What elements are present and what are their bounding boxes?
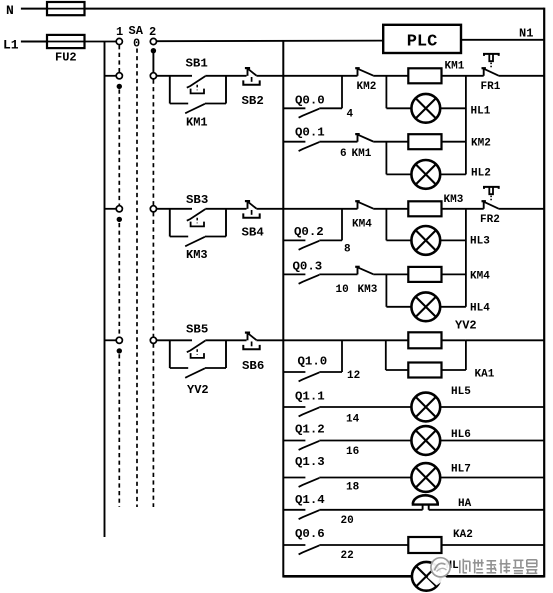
wire HL4 to return xyxy=(440,306,466,308)
wire HL5 to N1 rail xyxy=(440,406,544,408)
wire Q0.6 to KA2 coil xyxy=(319,544,408,546)
SA line 1 dashes b xyxy=(118,90,120,206)
SA blade closed segment line 2 xyxy=(152,51,154,73)
wire rail to Q1.3 contact xyxy=(283,477,305,479)
svg-text:KM1: KM1 xyxy=(186,116,208,130)
svg-text:HL3: HL3 xyxy=(470,236,490,248)
wire to HL1 xyxy=(386,107,411,109)
svg-text:10: 10 xyxy=(336,284,349,296)
wire rail to Q0.1 contact xyxy=(283,141,305,143)
svg-text:KM3: KM3 xyxy=(186,248,208,262)
wire L1 to fuse FU2 xyxy=(21,41,47,43)
SA contact 2 top xyxy=(150,38,156,44)
svg-text:SB6: SB6 xyxy=(242,359,264,373)
svg-text:FR1: FR1 xyxy=(481,81,501,93)
wire SA-2 to PLC xyxy=(157,40,384,43)
coil KM4 xyxy=(408,267,441,282)
wire Q0.3 to node 10 xyxy=(319,273,357,275)
coil KM3 xyxy=(408,201,441,216)
lamp HL2 xyxy=(411,160,440,189)
wire to HL3 xyxy=(386,239,411,241)
wire SA-2 to SB5 xyxy=(157,339,193,341)
svg-text:8: 8 xyxy=(344,244,351,256)
contact Q1.2 xyxy=(299,441,320,450)
lamp HL6 xyxy=(411,426,440,455)
svg-text:N: N xyxy=(6,3,14,18)
svg-text:Q0.3: Q0.3 xyxy=(293,260,323,274)
svg-text:KM1: KM1 xyxy=(445,61,465,73)
contact Q0.1 xyxy=(299,142,320,151)
wire Q0.0 to node 4 xyxy=(319,107,342,109)
contact Q0.2 xyxy=(299,241,320,250)
svg-text:4: 4 xyxy=(347,109,354,121)
wire SB4 past rail to KM4 contact xyxy=(256,208,357,210)
SA blade dot top xyxy=(151,48,156,53)
svg-text:Q0.1: Q0.1 xyxy=(295,126,325,140)
PLC U1 xyxy=(383,25,461,53)
contact Q0.3 xyxy=(299,275,320,284)
lamp HL7 xyxy=(411,463,440,492)
lamp HL5 xyxy=(411,393,440,422)
SA line 2 dashes b xyxy=(152,212,154,337)
svg-text:Q1.0: Q1.0 xyxy=(298,355,328,369)
wire N to fuse FU1 xyxy=(21,8,47,10)
contact Q1.1 xyxy=(299,407,320,416)
wire Q1.0 to node 12 xyxy=(319,371,342,373)
coil KA1 xyxy=(408,363,441,378)
pushbutton SB3 xyxy=(187,209,206,226)
wire HL1 to return xyxy=(440,107,466,109)
contact Q1.4 xyxy=(299,510,320,519)
svg-text:FU2: FU2 xyxy=(55,51,77,65)
return vertical group 2 xyxy=(465,209,467,307)
wire rail to Q0.2 contact xyxy=(283,239,305,241)
wire SB3 to SB4 xyxy=(205,208,246,210)
svg-text:2: 2 xyxy=(149,25,156,39)
wire KM4 contact to KM3 coil xyxy=(373,208,408,210)
SA line 0 dashes xyxy=(136,49,138,508)
wire HL3 to return xyxy=(440,239,466,241)
SA line 1 dashes a xyxy=(118,45,120,72)
svg-text:KM3: KM3 xyxy=(358,284,378,296)
SA line 2 dashes c xyxy=(152,344,154,507)
contact Q0.6 xyxy=(299,545,320,554)
parallel block left vertical xyxy=(385,340,387,370)
contact KM3 (hold) xyxy=(185,237,205,247)
wire N bus to N1 rail xyxy=(85,8,545,10)
riser KM2 row to HL2 xyxy=(385,142,387,175)
wire FR1 to N1 rail xyxy=(498,75,544,77)
wire rail to Q1.0 contact xyxy=(283,371,305,373)
svg-text:YV2: YV2 xyxy=(455,319,477,333)
wire rail to Q1.2 contact xyxy=(283,440,305,442)
wire FR2 to N1 rail xyxy=(498,208,544,210)
wire PLC to N1 rail xyxy=(461,39,544,41)
pushbutton SB1 xyxy=(187,76,206,93)
lamp HL8 xyxy=(412,562,441,591)
wire Q0.2 to node 8 xyxy=(319,239,342,241)
svg-text:Q0.2: Q0.2 xyxy=(294,225,324,239)
wire to HL2 xyxy=(386,173,411,175)
svg-text:PLC: PLC xyxy=(407,32,438,51)
wire SB6 past rail to YV2 coil xyxy=(256,339,408,341)
wire KM3 contact to KM4 coil xyxy=(373,273,408,275)
pushbutton SB4 xyxy=(243,201,259,218)
svg-text:SB4: SB4 xyxy=(242,226,265,240)
wire Q1.4 to bell HA xyxy=(319,509,422,511)
thermal overload FR2 xyxy=(482,187,499,209)
pushbutton SB2 xyxy=(243,68,259,85)
svg-text:KM3: KM3 xyxy=(444,194,464,206)
wire Q1.2 to lamp HL6 xyxy=(319,440,411,442)
riser node 8 xyxy=(341,209,343,241)
riser node 4 xyxy=(341,76,343,109)
coil KA2 xyxy=(408,537,441,553)
wire HL2 to return xyxy=(440,173,466,175)
svg-text:KA2: KA2 xyxy=(453,529,473,541)
coil KM2 xyxy=(408,134,441,149)
svg-text:SB3: SB3 xyxy=(186,193,208,207)
lamp HL4 xyxy=(411,292,440,321)
contact YV2 (hold) xyxy=(185,368,205,378)
SA contact 2 row 3 xyxy=(150,337,156,343)
svg-text:16: 16 xyxy=(346,446,359,458)
svg-text:YV2: YV2 xyxy=(187,383,209,397)
wire rail to Q0.3 contact xyxy=(283,273,305,275)
svg-text:HL7: HL7 xyxy=(451,464,471,476)
wire HA to N1 rail xyxy=(429,509,545,511)
coil KM1 xyxy=(408,68,441,83)
parallel block right vertical xyxy=(465,340,467,370)
wire KM1 coil to FR1 xyxy=(442,75,484,77)
wire feeder stub row 2 xyxy=(105,208,117,210)
wire feeder stub row 1 xyxy=(105,75,117,77)
branch box SB1/KM1 xyxy=(169,76,171,104)
lamp HL1 xyxy=(411,94,440,123)
wire KM1 contact to KM2 coil xyxy=(373,141,408,143)
contact KM1 (hold) xyxy=(185,104,205,114)
wire SB1 to SB2 xyxy=(205,75,246,77)
riser KM3 row to HL3 xyxy=(385,209,387,241)
left feeder vertical xyxy=(104,42,106,538)
svg-text:L1: L1 xyxy=(3,38,19,53)
svg-text:Q1.2: Q1.2 xyxy=(295,423,325,437)
svg-text:18: 18 xyxy=(346,482,360,494)
riser KM1 row to HL1 xyxy=(385,76,387,109)
SA contact 1 top xyxy=(116,38,122,44)
wire Q1.1 to lamp HL5 xyxy=(319,406,411,408)
SA line 1 dashes d xyxy=(118,354,120,507)
coil YV2 xyxy=(408,332,441,348)
svg-text:HL1: HL1 xyxy=(471,106,491,118)
svg-text:HL6: HL6 xyxy=(451,429,471,441)
wire rail to Q1.4 contact xyxy=(283,509,305,511)
svg-text:HA: HA xyxy=(458,498,472,510)
wire Q0.1 to node 6 xyxy=(319,141,357,143)
svg-text:HL5: HL5 xyxy=(451,386,471,398)
wire HL6 to N1 rail xyxy=(440,440,544,442)
svg-text:SB5: SB5 xyxy=(186,323,208,337)
contact KM3 NC interlock xyxy=(355,267,373,275)
riser node 12 xyxy=(341,340,343,372)
return vertical group 1 xyxy=(465,76,467,175)
svg-text:SB2: SB2 xyxy=(242,94,264,108)
watermark logo xyxy=(428,558,451,586)
svg-text:6: 6 xyxy=(340,148,347,160)
wire SB2 past rail to KM2 contact xyxy=(256,75,357,77)
wire to KA1 coil xyxy=(386,369,409,371)
svg-text:20: 20 xyxy=(341,515,354,527)
SA contact 1 row 1 xyxy=(116,73,122,79)
wire feeder stub row 3 xyxy=(105,339,117,341)
wire group3 to N1 rail xyxy=(466,339,544,341)
wire KA1 coil to block right xyxy=(442,369,466,371)
left rail (SA-2 bus) xyxy=(282,41,284,578)
wire SB5 to SB6 xyxy=(205,339,246,341)
SA line 1 dashes c xyxy=(118,223,120,337)
wire KM2 coil to return xyxy=(442,141,466,143)
svg-text:14: 14 xyxy=(346,414,360,426)
contact KM4 NC interlock xyxy=(355,201,373,209)
svg-text:KM4: KM4 xyxy=(352,219,372,231)
SA blade dot row 1 xyxy=(117,84,122,89)
pushbutton SB5 xyxy=(187,341,206,358)
svg-text:KM2: KM2 xyxy=(357,81,377,93)
svg-text:HL2: HL2 xyxy=(471,168,491,180)
contact KM2 NC interlock xyxy=(355,68,373,76)
right rail N1 xyxy=(543,8,545,578)
wire YV2 coil to return xyxy=(442,339,466,341)
svg-text:KA1: KA1 xyxy=(475,369,495,381)
wire HL7 to N1 rail xyxy=(440,477,544,479)
SA contact 1 row 3 xyxy=(116,337,122,343)
wire SA-2 to SB3 xyxy=(157,208,193,210)
svg-text:12: 12 xyxy=(347,370,360,382)
svg-text:Q0.0: Q0.0 xyxy=(295,94,325,108)
svg-text:0: 0 xyxy=(133,37,140,51)
wire HL8 to N1 rail xyxy=(441,575,545,578)
lamp HL3 xyxy=(411,226,440,255)
svg-text:Q1.4: Q1.4 xyxy=(295,493,325,507)
svg-text:Q1.3: Q1.3 xyxy=(295,455,325,469)
svg-text:SB1: SB1 xyxy=(186,57,208,71)
wire rail to lamp HL8 xyxy=(283,575,412,578)
wire rail to Q0.0 contact xyxy=(283,107,305,109)
riser KM4 row to HL4 xyxy=(385,274,387,306)
svg-text:FR2: FR2 xyxy=(480,214,500,226)
svg-text:22: 22 xyxy=(341,550,354,562)
branch box SB3/KM3 xyxy=(169,209,171,237)
wire KM3 coil to FR2 xyxy=(442,208,484,210)
svg-text:KM1: KM1 xyxy=(352,148,372,160)
contact Q0.0 xyxy=(299,109,320,118)
wire SA-2 to SB1 xyxy=(157,75,193,77)
bell HA xyxy=(412,495,439,510)
SA blade dot row 2 xyxy=(117,217,122,222)
wire Q1.3 to lamp HL7 xyxy=(319,477,411,479)
fuse FU1 xyxy=(47,2,85,15)
wire rail to Q1.1 contact xyxy=(283,406,305,408)
wire rail to Q0.6 contact xyxy=(283,544,305,546)
thermal overload FR1 xyxy=(482,54,499,76)
contact Q1.0 xyxy=(299,372,320,381)
svg-text:HL4: HL4 xyxy=(470,303,490,315)
wire to HL4 xyxy=(386,306,411,308)
contact KM1 NC interlock xyxy=(355,134,373,142)
wire KM4 coil to return xyxy=(442,273,466,275)
branch box SB5/YV2 xyxy=(169,340,171,368)
pushbutton SB6 xyxy=(243,333,259,350)
watermark text xyxy=(458,559,538,575)
SA contact 2 row 2 xyxy=(150,206,156,212)
SA blade dot row 3 xyxy=(117,348,122,353)
svg-text:N1: N1 xyxy=(519,27,533,41)
fuse FU2 xyxy=(47,35,85,48)
svg-text:KM4: KM4 xyxy=(470,271,490,283)
svg-text:Q1.1: Q1.1 xyxy=(295,390,325,404)
SA contact 2 row 1 xyxy=(150,73,156,79)
svg-text:Q0.6: Q0.6 xyxy=(295,527,325,541)
svg-text:1: 1 xyxy=(116,25,123,39)
wire KM2 contact to KM1 coil xyxy=(373,75,408,77)
SA line 2 dashes a xyxy=(152,80,154,206)
svg-text:KM2: KM2 xyxy=(471,138,491,150)
wire FU2 to SA terminal 1 xyxy=(85,41,117,43)
wire KA2 coil to N1 rail xyxy=(442,544,545,546)
contact Q1.3 xyxy=(299,478,320,487)
SA contact 1 row 2 xyxy=(116,206,122,212)
